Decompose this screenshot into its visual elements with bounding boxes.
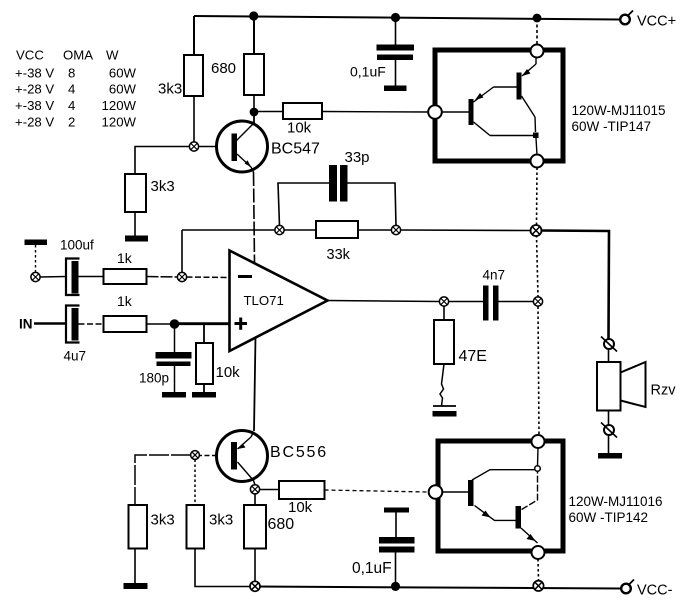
node input ground junction: [31, 272, 40, 281]
svg-text:120W: 120W: [102, 115, 137, 130]
node output Zobel junction: [439, 297, 448, 306]
svg-text:180p: 180p: [139, 371, 169, 386]
node BC556 base junction: [191, 451, 200, 460]
resistor 1k (feedback input): [104, 269, 147, 284]
wire rail left drop to 3k3: [193, 16, 195, 55]
svg-text:1k: 1k: [117, 293, 133, 309]
svg-text:4u7: 4u7: [64, 349, 87, 364]
svg-text:10k: 10k: [288, 499, 313, 516]
ground (input, top far-left): [25, 240, 48, 246]
wire 3k3 bottom to base node: [193, 96, 195, 143]
ground (180p): [162, 392, 186, 398]
wire 1k to plus node: [147, 323, 171, 325]
node output junction C: [531, 225, 542, 236]
svg-text:4n7: 4n7: [483, 268, 506, 283]
svg-text:IN: IN: [19, 317, 33, 332]
node minus input junction: [177, 272, 186, 281]
capacitor 0,1uF (top): [377, 13, 415, 91]
ground (bottom left 3k3): [124, 583, 148, 589]
svg-text:VCC: VCC: [16, 48, 44, 63]
svg-text:120W-MJ11016: 120W-MJ11016: [569, 494, 663, 509]
svg-text:+-28 V: +-28 V: [15, 115, 54, 130]
svg-text:60W: 60W: [109, 82, 137, 97]
node bottom rail junction (box drop): [533, 581, 543, 591]
svg-text:BC547: BC547: [271, 141, 320, 158]
transistor U3 power darlington box (MJ11016/TIP142): [429, 435, 563, 559]
svg-text:4: 4: [68, 82, 75, 97]
resistor 47E: [434, 306, 454, 406]
svg-text:10k: 10k: [216, 364, 241, 381]
capacitor 33p: [278, 165, 396, 226]
wire base junction down to mid 3k3: [194, 460, 196, 506]
wire 680 to bottom rail: [254, 549, 256, 583]
svg-text:TLO71: TLO71: [244, 293, 284, 308]
capacitor 100uf: [66, 259, 104, 296]
svg-text:60W -TIP142: 60W -TIP142: [569, 510, 649, 525]
svg-text:10k: 10k: [287, 120, 312, 137]
svg-text:120W-MJ11015: 120W-MJ11015: [572, 103, 666, 118]
wire bottom VCC- rail: [253, 587, 621, 589]
svg-text:3k3: 3k3: [151, 512, 175, 529]
wire feedback left segment: [182, 229, 275, 231]
capacitor 180p: [156, 324, 192, 393]
wire emitter junction to 10k: [260, 489, 280, 491]
svg-text:3k3: 3k3: [151, 178, 175, 195]
node base divider junction: [189, 142, 198, 151]
op-amp U2 TLO71: [230, 251, 328, 352]
ground (BC547 divider): [125, 236, 148, 242]
wire 33k to junction B: [358, 229, 392, 231]
wire minus junction to op-amp: [187, 276, 231, 279]
svg-text:4: 4: [68, 98, 75, 113]
ground (10k): [192, 392, 216, 398]
svg-text:2: 2: [68, 115, 75, 130]
wire BC556 base to junction: [199, 455, 217, 457]
svg-text:100uf: 100uf: [60, 238, 94, 253]
wire ground to input node (dotted): [35, 245, 37, 273]
svg-text:680: 680: [211, 60, 236, 77]
wire node to 10k: [254, 111, 283, 113]
resistor 680 (bottom): [244, 505, 266, 549]
wire junction to 4n7: [449, 301, 484, 303]
svg-text:120W: 120W: [102, 98, 137, 113]
wire rail drop to power box U1: [536, 19, 538, 45]
wire base junction left to 3k3: [135, 455, 191, 505]
wire op-amp output: [328, 301, 440, 302]
svg-text:+-28 V: +-28 V: [15, 82, 54, 97]
ground (47E): [433, 406, 457, 417]
wire IN to 4u7: [34, 322, 66, 325]
svg-text:Rzv: Rzv: [651, 383, 677, 399]
wire junction to 100uf: [40, 276, 66, 279]
resistor 3k3 (BC547 divider): [125, 174, 146, 212]
svg-text:+-38 V: +-38 V: [15, 66, 54, 81]
wire bottom box to rail: [537, 559, 540, 581]
capacitor 4n7: [483, 286, 534, 321]
svg-text:VCC-: VCC-: [637, 583, 673, 599]
wire emitter junction to 680: [254, 494, 256, 506]
node bottom rail junction (0,1uF): [391, 582, 400, 591]
resistor 3k3 (bottom left): [129, 505, 148, 549]
node BC547 collector junction: [250, 108, 259, 117]
wire op-amp V- to BC556: [254, 337, 256, 431]
resistor 10k (bottom): [279, 481, 325, 499]
wire 1k to minus junction: [147, 276, 179, 279]
svg-text:60W: 60W: [109, 66, 137, 81]
resistor 33k: [316, 221, 358, 238]
wire 680 bottom to collector node: [253, 95, 255, 112]
wire speaker to lower connector: [608, 411, 610, 426]
connector speaker upper: [601, 337, 617, 352]
terminal VCC+: [620, 11, 633, 25]
transistor Q2 BC556: [217, 431, 268, 482]
node output junction D (4n7 tap): [533, 297, 542, 306]
capacitor 4u7: [66, 306, 104, 343]
wire junction left and down to divider 3k3: [135, 147, 190, 175]
node rail dot at box drop: [533, 14, 542, 23]
node plus input junction: [170, 319, 180, 329]
ground (speaker): [598, 453, 622, 459]
svg-text:1k: 1k: [117, 250, 133, 266]
svg-text:BC556: BC556: [270, 444, 328, 461]
wire mid 3k3 to bottom rail: [195, 549, 250, 587]
svg-text:3k3: 3k3: [158, 81, 182, 98]
svg-text:3k3: 3k3: [209, 512, 233, 529]
wire minus-node vertical: [181, 230, 183, 273]
wire top VCC+ rail: [194, 16, 620, 20]
connector speaker lower: [601, 423, 617, 438]
wire junction C to speaker corner: [541, 231, 610, 340]
transistor Q1 BC547: [217, 112, 268, 172]
terminal VCC-: [621, 580, 634, 594]
resistor 10k (op-amp plus to ground): [196, 324, 213, 393]
wire 10k to power box B: [325, 490, 429, 492]
speaker Rzv: [597, 362, 646, 411]
wire output vertical (top box to bottom box): [537, 168, 540, 436]
svg-text:47E: 47E: [459, 348, 487, 365]
svg-text:VCC+: VCC+: [637, 14, 676, 30]
resistor 10k (top): [283, 103, 322, 119]
wire plus node to op-amp: [175, 322, 231, 325]
svg-text:60W -TIP147: 60W -TIP147: [572, 119, 652, 134]
supply table text: [15, 48, 137, 130]
wire junction to BC547 base: [198, 146, 218, 148]
wire 3k3 to ground bar: [134, 549, 136, 584]
wire connector to ground: [608, 435, 610, 453]
node rail dot at 680: [249, 11, 258, 20]
resistor 1k (signal input): [104, 316, 147, 332]
wire connector to speaker: [608, 349, 610, 362]
svg-text:33p: 33p: [345, 149, 370, 166]
svg-text:33k: 33k: [327, 247, 351, 263]
wire rail drop to 680: [253, 16, 255, 54]
svg-text:0,1uF: 0,1uF: [352, 560, 392, 577]
svg-text:0,1uF: 0,1uF: [350, 64, 386, 80]
node bottom rail junction (680/3k3): [250, 581, 260, 591]
node feedback junction B: [391, 225, 400, 234]
resistor 680 (top): [244, 54, 264, 95]
resistor 3k3 (bottom middle): [187, 505, 205, 549]
transistor U1 power darlington box (MJ11015/TIP147): [428, 45, 563, 168]
svg-text:8: 8: [68, 66, 75, 81]
node feedback junction A: [275, 225, 284, 234]
node BC556 emitter junction: [250, 485, 259, 494]
wire feedback A to 33k: [284, 229, 316, 231]
wire BC556 emitter to junction: [254, 481, 256, 486]
svg-text:OMA: OMA: [63, 48, 93, 63]
wire 10k to driver box B: [322, 111, 429, 114]
svg-text:+-38 V: +-38 V: [15, 98, 54, 113]
wire divider 3k3 to ground: [134, 212, 136, 236]
wire BC547 emitter to op-amp V+: [254, 172, 255, 263]
resistor 3k3 (top left): [184, 55, 203, 96]
capacitor 0,1uF (bottom): [379, 508, 415, 583]
wire junction B to output junction C: [401, 229, 532, 232]
svg-text:W: W: [106, 48, 119, 63]
svg-text:680: 680: [268, 516, 295, 533]
